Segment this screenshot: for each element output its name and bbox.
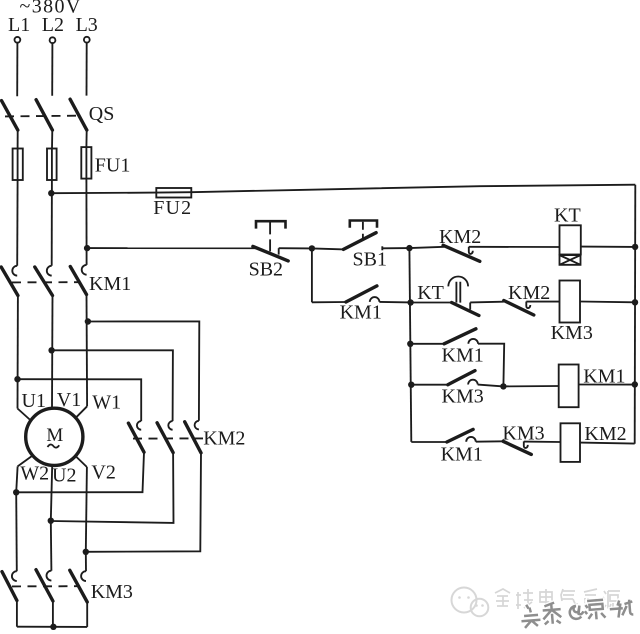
contactor KM2 pole1 blade [128,423,144,452]
pushbutton SB2 blade [253,246,288,261]
node control branch on L3 [84,245,90,251]
svg-text:M: M [46,425,63,446]
wire L3 branch to KM2 pole3 [88,321,199,420]
contactor KM1 pole3 fixed contact [82,265,87,275]
contact KM3 NO blade [448,371,475,385]
svg-text:W2: W2 [20,462,49,484]
watermark text toutiao at bengyidai [520,596,633,628]
contactor KM3 pole1 blade [2,572,17,601]
KT delay symbol arc [448,277,468,287]
wire W2 down [16,466,17,492]
wire KM1 NO to KM3 NC [476,440,503,442]
wire W2 to KM3 pole1 [15,492,18,571]
KM1 aux contact arc [370,297,380,302]
motor tilde [48,444,60,447]
wire branch to KM1 aux [312,301,346,303]
wire L3 KM1 down [86,295,89,407]
node bus rung3 [632,381,638,387]
svg-text:L2: L2 [42,14,64,36]
wire KM3 pole2 to star bus [52,601,54,627]
contact KM1 NO rung3 blade [444,329,476,344]
KM2 mechanical link dashed [133,437,203,439]
SB1 fixed contact tick [381,246,383,250]
wire L1 terminal to QS [16,43,18,96]
contactor KM1 pole1 blade [1,267,18,296]
wire SB1 to node A [382,247,409,249]
svg-text:U2: U2 [52,465,76,487]
KT delay symbol verticals [456,282,460,303]
node L2 to KM2 branch [48,347,54,353]
svg-text:W1: W1 [92,391,121,413]
node SB2 SB1 junction [309,245,315,251]
svg-text:U1: U1 [22,390,46,412]
motor lead W2 diagonal [18,455,33,466]
node FU2 branch on L2 [48,190,54,196]
wire node A to KM2 NC [409,247,444,248]
right bus vertical [634,185,637,444]
wire rung1 L3 branch to SB2 [87,247,256,249]
wire KM3 NO to node E [478,385,504,387]
svg-text:KM1: KM1 [89,273,131,295]
terminal L3 [84,37,90,43]
node V2 [83,549,89,555]
node D rung3 lower [408,382,414,388]
KM1 NO rung3 arc [468,339,478,344]
wire U2 down [51,466,52,521]
SB1 actuator stem dashed [362,222,364,240]
KT coil delay box [560,255,581,265]
svg-text:FU1: FU1 [95,155,131,177]
svg-text:SB2: SB2 [249,259,283,281]
wire KM1 NO right then down [478,344,504,387]
wire SB2 to junction [279,247,312,249]
wire L1 FU1 to KM1 [16,180,18,266]
contactor KM3 pole2 blade [36,570,53,601]
contact KM1 NO rung4 blade [447,429,473,442]
wire L2 FU1 to KM1 [51,180,53,266]
node bus rung2 [632,299,638,305]
contact KM2 NC rung1 blade [443,245,480,261]
fuse FU1 pole1 [13,149,23,181]
SB1 button cap [350,221,377,228]
svg-text:KM3: KM3 [91,581,133,603]
svg-text:KM3: KM3 [551,322,593,344]
wire node C to KM1 NO [410,343,444,345]
wire V2 to KM3 pole3 [85,552,87,571]
wire through FU1 pole1 [17,149,19,181]
wire KM2 NC to KM3 coil [526,301,559,303]
svg-text:KT: KT [417,282,444,304]
KM3 NC tick with hook [524,441,528,448]
wire through FU1 pole3 [85,147,87,179]
svg-text:L1: L1 [8,14,30,36]
switch QS pole 1 blade [2,101,18,131]
fuse FU2 [156,188,191,198]
contactor KM1 pole2 fixed contact [47,266,52,276]
contactor KM1 pole1 fixed contact [12,266,17,276]
wire KM1 aux to node B [379,301,411,304]
contactor coil KM1 [559,365,579,408]
wire KM3 coil to bus [580,301,635,304]
contact KM1 aux blade [346,286,377,302]
wire KM3 pole1 to star bus [16,601,18,627]
svg-text:KM2: KM2 [508,282,550,304]
vertical bus node A to rung4 [409,248,411,442]
contactor KM2 pole3 fixed contact [195,421,199,430]
svg-text:KM3: KM3 [442,386,484,408]
node C rung3 upper [407,341,413,347]
contactor KM3 pole3 blade [70,570,87,602]
star point bus [17,626,87,628]
wire QS pole1 to FU1 [17,130,19,149]
wire L1 branch to KM2 pole1 [18,379,142,421]
KM3 NO arc [468,380,478,385]
svg-text:KM1: KM1 [441,444,483,466]
wire node B to KT contact [411,302,452,304]
wire L2 branch to KM2 pole2 [52,350,173,421]
node W2 [13,489,19,495]
svg-text:FU2: FU2 [153,197,192,219]
terminal L2 [50,37,56,43]
wire L3 terminal to QS [86,43,88,96]
motor lead V2 diagonal [76,457,87,468]
wire node D to KM3 NO [411,384,448,386]
node B rung2 [407,299,413,305]
contactor coil KM2 [561,423,581,462]
QS mechanical link dashed [5,115,80,118]
contactor KM2 pole2 fixed contact [168,421,172,430]
contactor KM3 pole2 fixed contact [47,571,52,581]
wire KM3 NC to KM2 coil [524,441,561,443]
wire L2 KM1 to motor V1 [51,296,54,408]
svg-text:KM2: KM2 [439,226,481,248]
contactor KM1 pole3 blade [70,267,86,295]
node bus rung1 [632,244,638,250]
svg-text:KM2: KM2 [203,428,245,450]
node L3 to KM2 branch [85,318,91,324]
pushbutton SB1 blade [343,233,376,250]
watermark wechat icon [452,588,489,617]
SB2 actuator stem dashed [269,222,271,252]
wire KM2 NC to KT coil [469,246,560,248]
wire rung4 from vertical [411,441,447,443]
node E join [500,383,506,389]
motor lead U1 diagonal [18,409,30,420]
SB2 button cap [256,221,286,228]
switch QS pole 3 blade [70,99,87,130]
contact KM2 NC rung2 blade [504,301,534,316]
node star point [50,624,56,630]
svg-text:KT: KT [554,205,581,227]
wire KT contact to KM2 NC rung2 [470,301,504,304]
contactor KM2 pole1 fixed contact [137,421,141,430]
svg-text:L3: L3 [76,14,98,36]
contact KT delayed NO blade [452,303,479,316]
SB2 fixed contact tick [278,248,280,254]
fuse FU1 pole3 [81,147,91,179]
node U2 [48,518,54,524]
contactor KM2 pole3 blade [185,422,201,453]
contact KM3 NC blade [503,441,531,454]
switch QS pole 2 blade [36,100,52,130]
terminal L1 [15,37,21,43]
svg-text:V2: V2 [91,461,115,483]
svg-text:KM2: KM2 [584,423,626,445]
wire U2 to KM2 pole2 bottom [51,453,174,523]
wire L2 terminal to QS [51,43,53,96]
node L1 to KM2 branch [14,376,20,382]
watermark text quanqiu dianqi ziyuan [495,589,620,609]
wire L3 FU1 to KM1 [85,179,87,265]
watermark text toutiao at bengyidai glow [520,596,633,628]
svg-text:KM1: KM1 [340,301,382,323]
wire U2 to KM3 pole2 [50,521,53,571]
contactor KM1 pole2 blade [35,267,53,296]
svg-text:QS: QS [89,103,115,125]
timer coil KT [560,225,581,254]
svg-text:KM1: KM1 [442,345,484,367]
KM3 mechanical link dashed [12,585,80,587]
wire node E to KM1 coil [503,385,558,387]
contactor KM2 pole2 blade [157,423,173,453]
fuse FU1 pole2 [47,149,57,181]
node A rung1 [406,245,412,251]
svg-text:SB1: SB1 [353,248,387,270]
KM2 NC rung2 tick with hook [526,302,530,309]
contactor KM3 pole3 fixed contact [81,571,86,581]
wire KM1 coil to bus [579,384,635,386]
wire KM2 coil to bus corner [580,443,635,444]
wire KT coil to right bus [581,246,635,248]
KM1 NO rung4 arc [466,437,476,442]
wire QS pole3 to FU1 [85,130,87,147]
wire W2 to KM2 pole1 bottom [16,452,144,492]
wire through FU1 pole2 [51,149,53,181]
motor M circle [26,408,83,465]
wire QS pole2 to FU1 [51,130,53,149]
KT contact tick [469,303,471,310]
wire KM3 pole3 to star bus [86,602,88,627]
wire SB1 parallel branch vertical [311,248,313,302]
wire junction to SB1 [312,248,345,249]
wire FU2 line from L2 to right bus [51,185,635,194]
KM2 NC rung1 tick with hook [469,247,473,254]
wire V2 down [86,467,87,552]
wire V2 to KM2 pole3 bottom [86,453,201,552]
wire L1 KM1 to motor U1 [17,296,19,409]
contactor coil KM3 [560,281,581,323]
motor lead W1 diagonal [76,406,87,417]
KM1 mechanical link dashed [12,281,79,283]
contactor KM3 pole1 fixed contact [12,571,17,581]
